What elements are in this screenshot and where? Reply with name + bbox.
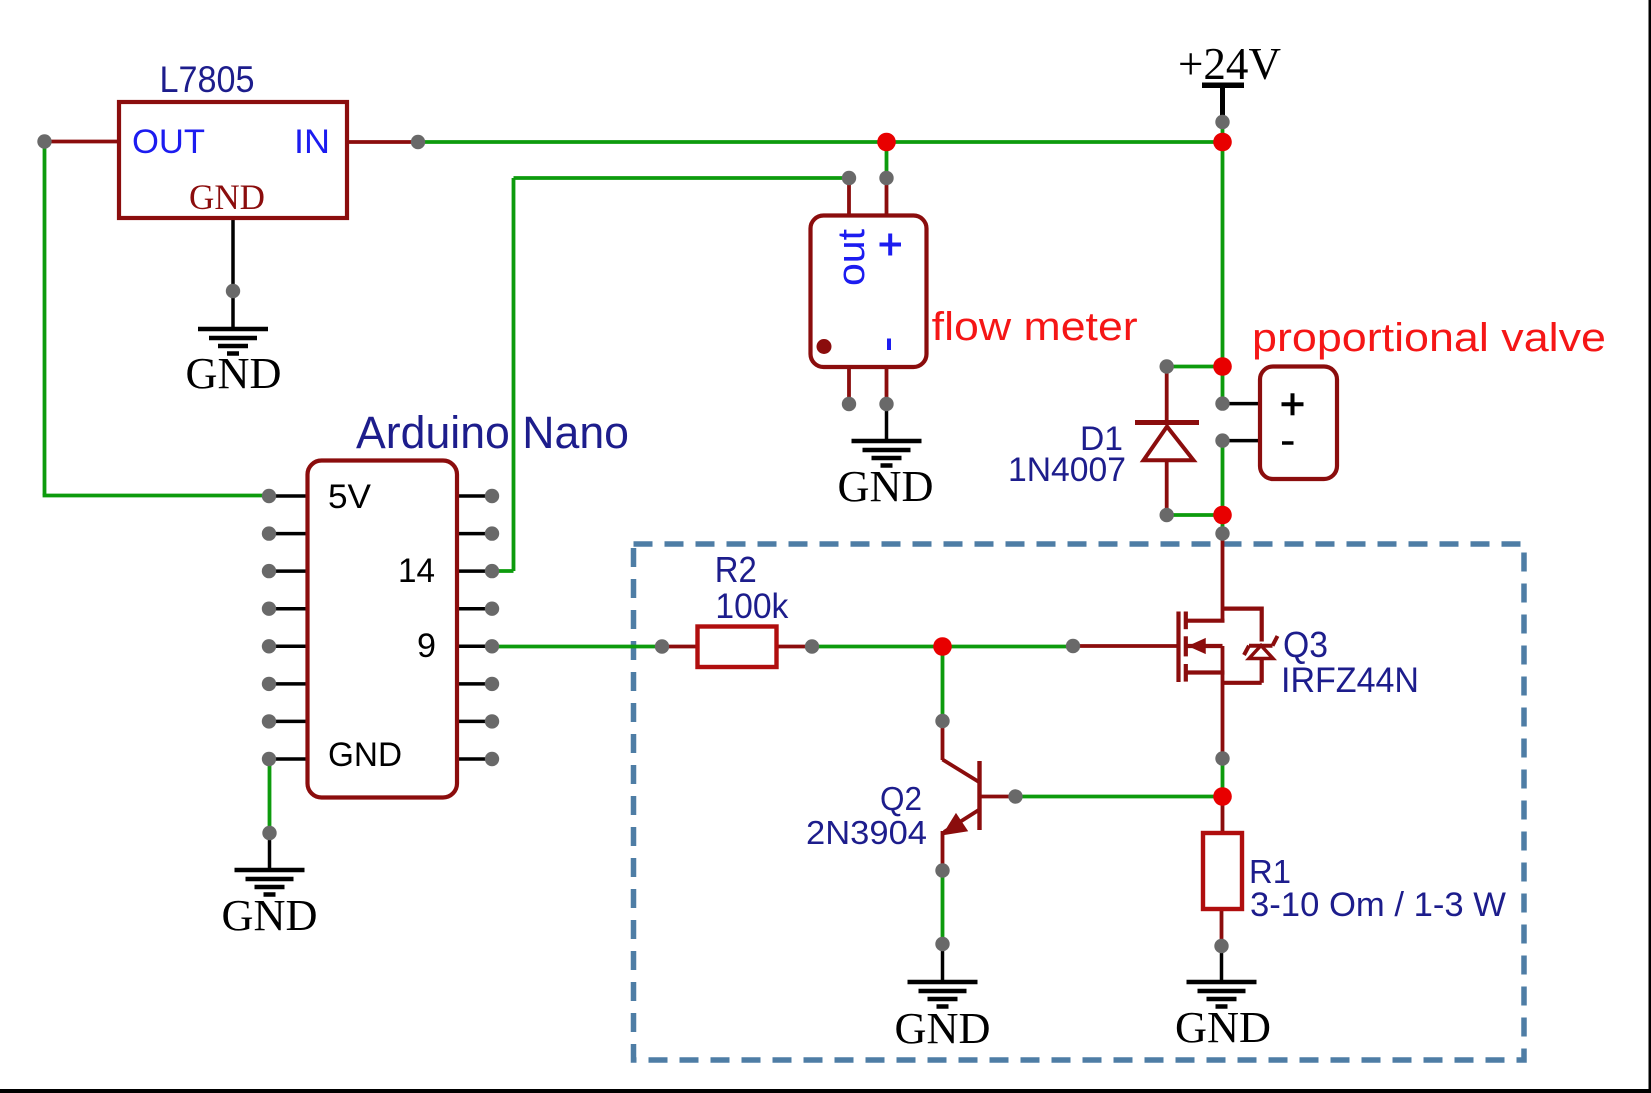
wire valve plus stub xyxy=(1223,402,1259,406)
svg-text:proportional valve: proportional valve xyxy=(1252,316,1606,360)
Q3 source to body diode bottom xyxy=(1223,681,1262,685)
svg-text:+24V: +24V xyxy=(1178,38,1281,89)
wire Q3 gate lead xyxy=(1073,644,1180,648)
svg-text:L7805: L7805 xyxy=(160,59,255,100)
WIRES-GREEN xyxy=(43,122,1223,944)
wire Arduino GND pin drop xyxy=(268,759,272,833)
wire to Arduino pin 14 xyxy=(492,569,514,573)
wire flow meter nc pin xyxy=(847,367,851,404)
wire source node to MOSFET source xyxy=(1221,759,1225,797)
wire Q2 base to source node xyxy=(1016,795,1223,799)
junction dots xyxy=(877,133,1232,806)
wire D1 anode to valve minus node xyxy=(1167,513,1223,517)
resistor R2 box xyxy=(698,627,777,668)
Q2 emitter diagonal xyxy=(944,810,980,833)
Q3 body stub xyxy=(1186,644,1223,648)
diode D1 cathode bar xyxy=(1135,420,1199,425)
Q2 base bar xyxy=(977,761,981,830)
svg-text:IN: IN xyxy=(294,123,330,161)
wire +24V symbol drop xyxy=(1221,122,1225,142)
wire D1 cathode lead xyxy=(1165,367,1169,421)
wire valve plus pin drop xyxy=(1221,367,1225,404)
Q3 drain stub xyxy=(1186,619,1225,623)
wire Arduino ground lead xyxy=(268,833,272,870)
Q3 substrate arrow xyxy=(1190,639,1206,653)
wire flow meter minus to ground xyxy=(885,404,889,441)
Arduino pin stubs xyxy=(269,496,492,759)
wire 5V net horizontal to Arduino 5V xyxy=(43,494,269,498)
frame bottom border xyxy=(0,1089,1651,1093)
node flow meter plus junction xyxy=(877,133,896,152)
Q2 collector vertical xyxy=(941,721,945,760)
diode D1 triangle xyxy=(1144,427,1194,461)
ground symbol Arduino xyxy=(235,870,305,895)
flow meter minus symbol (rotated) xyxy=(887,339,891,351)
ground symbol flow meter xyxy=(852,441,922,466)
svg-text:GND: GND xyxy=(189,177,265,217)
wire L7805 OUT stub xyxy=(45,140,120,144)
wire valve minus stub xyxy=(1223,439,1259,443)
transistor Q2 2N3904 xyxy=(943,721,1016,871)
wire +24V down to valve node xyxy=(1221,142,1225,367)
wire R1 ground lead xyxy=(1220,946,1224,982)
svg-text:R2: R2 xyxy=(715,549,757,590)
svg-text:100k: 100k xyxy=(715,587,788,626)
svg-text:5V: 5V xyxy=(328,478,371,516)
Q3 channel segment mid xyxy=(1184,636,1188,656)
wire +24V horizontal bus xyxy=(418,140,1223,144)
wire 5V net vertical from L7805 OUT xyxy=(43,142,47,496)
svg-text:3-10 Om / 1-3 W: 3-10 Om / 1-3 W xyxy=(1250,886,1506,924)
Q3 body diode bottom vertical xyxy=(1260,659,1264,683)
actuator proportional valve box xyxy=(1260,367,1337,480)
svg-text:2N3904: 2N3904 xyxy=(806,814,927,851)
ground symbol Q2 xyxy=(908,982,978,1007)
wire Q2 emitter to ground xyxy=(941,871,945,945)
wire +24V symbol stem xyxy=(1220,87,1225,122)
wire R2 to gate node xyxy=(812,645,1073,649)
valve plus symbol xyxy=(1282,393,1304,415)
Q3 gate line xyxy=(1176,612,1180,683)
wire valve minus to drain node xyxy=(1221,441,1225,515)
pin dots gray xyxy=(37,115,1229,953)
wire Q2 emitter ground lead xyxy=(941,944,945,982)
svg-text:flow meter: flow meter xyxy=(932,305,1138,349)
svg-text:Q2: Q2 xyxy=(880,780,922,817)
Q3 channel segment bottom xyxy=(1184,664,1188,682)
Q2 emitter vertical xyxy=(941,831,945,871)
wire flow meter plus pin drop xyxy=(885,142,889,178)
ground symbol L7805 xyxy=(198,329,268,354)
wire R1 top lead xyxy=(1221,797,1225,834)
ground symbol R1 xyxy=(1187,982,1257,1007)
Q2 base stub xyxy=(980,795,1016,799)
svg-text:GND: GND xyxy=(222,891,318,940)
svg-text:GND: GND xyxy=(186,349,282,398)
wire flow meter out vertical xyxy=(512,178,516,571)
wire Arduino pin 9 to R2 xyxy=(492,645,662,649)
wire L7805 IN stub xyxy=(347,140,418,144)
mcu U1 Arduino Nano box xyxy=(308,461,458,798)
svg-text:R1: R1 xyxy=(1249,853,1291,890)
Q3 body diode triangle xyxy=(1249,646,1273,659)
wire R2 right lead xyxy=(777,645,813,649)
Q3 source stub xyxy=(1186,670,1225,674)
svg-text:1N4007: 1N4007 xyxy=(1008,451,1126,489)
flow meter plus symbol xyxy=(880,234,902,256)
supply +24V bar xyxy=(1202,83,1244,89)
node +24V bus junction xyxy=(1213,133,1232,152)
Q3 body diode top vertical xyxy=(1260,607,1264,642)
valve minus symbol xyxy=(1282,441,1294,445)
svg-text:IRFZ44N: IRFZ44N xyxy=(1281,661,1419,700)
resistor R1 box xyxy=(1203,833,1242,909)
regulator U2 L7805 box xyxy=(119,102,347,218)
Q2 collector diagonal xyxy=(943,760,980,783)
wire flow meter out pin xyxy=(847,178,851,216)
wire R1 bottom lead xyxy=(1220,909,1224,946)
wire gate node down to Q2 collector xyxy=(941,647,945,722)
sensor flow meter box xyxy=(811,216,927,368)
svg-text:out: out xyxy=(831,229,873,286)
wire D1 anode lead xyxy=(1165,460,1169,515)
frame right border xyxy=(1649,0,1651,1093)
WIRES-DARKRED pin leads xyxy=(45,142,1223,947)
wire flow meter minus pin xyxy=(885,367,889,404)
wire D1 cathode to valve plus node xyxy=(1167,365,1223,369)
wire L7805 GND pin xyxy=(231,218,235,329)
wire flow meter out horizontal xyxy=(514,176,850,180)
dashed driver-stage boundary box xyxy=(634,544,1525,1060)
node valve minus junction xyxy=(1213,506,1232,525)
Q2 emitter arrow xyxy=(944,815,967,834)
svg-text:OUT: OUT xyxy=(132,123,205,161)
svg-text:GND: GND xyxy=(838,462,934,511)
wire drain node stub xyxy=(1221,515,1225,534)
node source junction xyxy=(1213,787,1232,806)
WIRES-BLACK xyxy=(233,87,1258,982)
svg-text:GND: GND xyxy=(895,1004,991,1053)
wire flow meter plus pin xyxy=(885,178,889,216)
svg-text:14: 14 xyxy=(398,552,435,590)
svg-text:Q3: Q3 xyxy=(1283,624,1328,665)
Q3 channel segment top xyxy=(1184,612,1188,630)
node valve plus junction xyxy=(1213,357,1232,376)
wire R2 left lead xyxy=(662,645,698,649)
wire Q3 drain lead xyxy=(1221,534,1225,622)
Q3 zener bar xyxy=(1244,636,1278,655)
mosfet Q3 IRFZ44N xyxy=(1179,607,1262,683)
wire Q3 source lead xyxy=(1221,646,1225,759)
svg-text:Arduino Nano: Arduino Nano xyxy=(356,407,629,458)
svg-text:GND: GND xyxy=(1175,1003,1271,1052)
Q3 drain T to body diode xyxy=(1223,606,1262,610)
sensor flow meter pin1 mark xyxy=(817,339,832,354)
svg-text:GND: GND xyxy=(328,736,402,774)
svg-text:9: 9 xyxy=(417,627,436,665)
node gate junction xyxy=(933,637,952,656)
